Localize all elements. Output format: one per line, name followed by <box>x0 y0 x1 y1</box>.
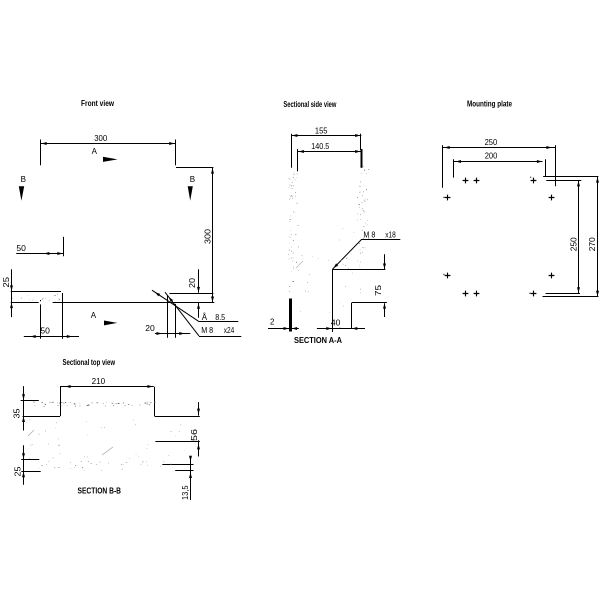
svg-text:25: 25 <box>13 466 22 477</box>
label diameter 8.5 <box>202 313 226 322</box>
extension line right x175 <box>175 140 177 166</box>
stray dot 2 <box>443 197 444 198</box>
dim 25 up arrow <box>10 303 13 308</box>
dimension 2 line <box>268 328 299 330</box>
dim 50 upper left arrow <box>44 252 49 255</box>
svg-text:SECTION B-B: SECTION B-B <box>78 486 122 496</box>
extension line x63 <box>63 237 65 256</box>
leader B underline <box>199 336 241 338</box>
dim text 250 <box>485 138 498 147</box>
dim text 155 <box>315 126 328 135</box>
hatch speckle front view flange <box>33 294 61 302</box>
svg-text:200: 200 <box>485 152 498 161</box>
dimension 140.5 line <box>298 151 362 153</box>
hole center cross 10 <box>531 291 537 297</box>
svg-text:50: 50 <box>40 326 50 335</box>
svg-text:B: B <box>190 175 195 184</box>
hole center cross 5 <box>549 195 555 201</box>
dim 50 lower left arrow <box>30 335 35 338</box>
dim 250 left arrow <box>444 146 449 149</box>
inner edge left <box>23 416 61 418</box>
dimension 300 horizontal line <box>40 143 175 145</box>
leader line hole B <box>165 292 199 336</box>
svg-text:Front view: Front view <box>81 99 115 108</box>
svg-text:140.5: 140.5 <box>311 142 329 151</box>
extension line left x40 <box>40 140 42 166</box>
dim text 300 vertical <box>203 228 212 244</box>
dim 200 right arrow <box>537 160 542 163</box>
inner edge right <box>155 416 200 418</box>
extension line x297 <box>297 149 299 171</box>
dim text 20 bottom <box>145 324 155 333</box>
svg-text:13,5: 13,5 <box>181 485 190 500</box>
boss left edge <box>332 270 334 332</box>
svg-text:B: B <box>21 175 26 184</box>
notch right edge tv <box>154 387 156 416</box>
section arrow A bottom <box>104 321 117 326</box>
dimension 35 vertical <box>23 386 25 430</box>
lower wall bottom edge <box>21 471 40 473</box>
dim 56 down arrow <box>197 409 200 414</box>
dim text 56 <box>190 428 199 441</box>
hatch speckle side view left wall <box>288 173 298 292</box>
dim text 13,5 <box>181 485 190 500</box>
stray dot 3 <box>443 274 444 275</box>
leader B arrowhead <box>169 297 174 302</box>
section arrow A top <box>103 157 118 162</box>
dim 155 left arrow <box>292 134 297 137</box>
svg-text:x24: x24 <box>224 326 235 335</box>
dim text 35 <box>13 408 22 419</box>
bottom edge right segment <box>53 302 215 304</box>
edge y470 <box>175 470 193 472</box>
svg-text:250: 250 <box>570 237 579 252</box>
svg-text:8.5: 8.5 <box>215 313 225 322</box>
dim 270v up arrow <box>596 177 599 182</box>
dim 56 lower shaft <box>198 440 200 456</box>
svg-text:M 8: M 8 <box>363 230 375 239</box>
section arrow B right <box>188 186 193 201</box>
label M8 x24 <box>201 326 235 335</box>
boss top edge <box>332 269 385 271</box>
dim text 210 <box>92 377 106 386</box>
dim text 300 top <box>94 134 108 143</box>
dim 56 upper shaft <box>198 402 200 416</box>
dim 25 down arrow <box>10 285 13 290</box>
hatch speckle side view lower middle <box>300 255 361 327</box>
dim 13.5 up arrow <box>189 473 192 478</box>
dim 13.5 down arrow <box>189 456 192 461</box>
hatch speckle top view lower row <box>42 461 172 468</box>
svg-text:2: 2 <box>270 318 275 327</box>
dimension 210 line <box>60 386 154 388</box>
dim 56 up arrow <box>197 444 200 449</box>
dim text 40 <box>331 319 341 328</box>
dim text 250 vertical <box>570 237 579 252</box>
svg-text:20: 20 <box>145 324 155 333</box>
dim 35 down arrow <box>22 394 25 399</box>
dim 20 vertical upper shaft <box>198 269 200 293</box>
label SECTION A-A <box>294 335 342 345</box>
hole center cross 6 <box>445 273 451 279</box>
dim 140.5 left arrow <box>299 150 304 153</box>
hole center cross 8 <box>463 291 469 297</box>
svg-text:210: 210 <box>92 377 106 386</box>
hatch speckle top view cavity <box>29 419 181 439</box>
svg-text:270: 270 <box>588 237 597 252</box>
extension 250v bottom <box>546 293 580 295</box>
dim 300 left arrow <box>41 142 46 145</box>
dim 210 right arrow <box>147 385 152 388</box>
leader M8x18 arrowhead <box>333 263 338 268</box>
notch left edge <box>60 387 62 416</box>
dim 140.5 right arrow <box>355 150 360 153</box>
dim 2 right-pointing arrow <box>284 327 289 330</box>
dim 250v up arrow <box>577 181 580 186</box>
hatch speckle front view flange left <box>12 295 30 299</box>
dimension 13.5 vertical <box>190 457 192 500</box>
dimension 250 vertical <box>578 180 580 293</box>
dim 50 lower right arrow <box>67 335 72 338</box>
dim 75 lower shaft <box>384 303 386 317</box>
hatch speckle top view lower scatter2 <box>39 468 123 471</box>
leader line hole A <box>152 290 198 321</box>
dim text 200 <box>485 152 498 161</box>
dim text 50 upper <box>16 244 26 253</box>
section label A bottom <box>91 311 97 320</box>
extension line x361 thin <box>360 134 362 150</box>
plate right edge segment <box>555 145 557 186</box>
svg-text:Mounting plate: Mounting plate <box>467 100 512 109</box>
dim 20v down arrow <box>197 287 200 292</box>
svg-text:300: 300 <box>203 228 212 244</box>
hole center cross 7 <box>549 273 555 279</box>
step top edge <box>352 302 387 304</box>
dim 75 down arrow <box>383 264 386 269</box>
leader A arrowhead <box>155 292 160 296</box>
dim text 270 vertical <box>588 237 597 252</box>
wall edge y441 <box>155 441 199 443</box>
dim 40 right arrow <box>352 327 357 330</box>
hole center cross 9 <box>474 291 480 297</box>
dimension 40 line <box>317 328 365 330</box>
svg-text:Å: Å <box>202 313 208 322</box>
dimension 250 line <box>443 147 555 149</box>
dim 50 upper right arrow <box>57 252 62 255</box>
label SECTION B-B <box>78 486 122 496</box>
outer wall top edge <box>21 400 39 402</box>
label M8 x18 <box>363 230 396 239</box>
flange top edge right <box>169 293 213 295</box>
dim 250 right arrow <box>546 146 551 149</box>
dim 75 up arrow <box>383 303 386 308</box>
dimension 155 line <box>291 135 361 137</box>
dim 300v down arrow <box>211 297 214 302</box>
dim 25tv up arrow <box>22 472 25 477</box>
section label B left <box>21 175 26 184</box>
view title: Sectional top view <box>63 358 116 367</box>
dim text 2 <box>270 318 275 327</box>
hole centerline 2 <box>175 304 177 338</box>
svg-text:155: 155 <box>315 126 328 135</box>
dim 200 left arrow <box>456 160 461 163</box>
svg-text:M 8: M 8 <box>201 326 213 335</box>
hole center cross 1 <box>463 178 469 184</box>
dim 40 left arrow <box>326 327 331 330</box>
section label A top <box>92 147 98 156</box>
stray dot 4 <box>529 293 530 294</box>
dim text 25 tv <box>13 466 22 477</box>
dimension 270 vertical <box>597 176 599 296</box>
svg-text:250: 250 <box>485 138 498 147</box>
view title: Front view <box>81 99 115 108</box>
dim text 140.5 <box>311 142 329 151</box>
bottom edge left segment <box>11 302 39 304</box>
dim text 50 lower <box>40 326 50 335</box>
dimension 25 vertical line <box>11 269 13 317</box>
hatch speckle top view upper wall row <box>33 402 155 407</box>
extension line x545 <box>545 159 547 176</box>
edge y464 <box>162 464 193 466</box>
leader M8x18 underline <box>361 239 400 241</box>
hole centerline 1 <box>167 295 169 338</box>
svg-text:SECTION A-A: SECTION A-A <box>294 335 342 345</box>
centerline dot <box>40 300 42 301</box>
dim 210 left arrow <box>65 385 70 388</box>
svg-text:50: 50 <box>16 244 26 253</box>
extension 250v top <box>546 180 581 182</box>
stray dot 1 <box>530 177 531 178</box>
dim 270v down arrow <box>596 291 599 296</box>
svg-text:x18: x18 <box>385 230 396 239</box>
view title: Mounting plate <box>467 100 512 109</box>
top step edge <box>176 167 213 169</box>
svg-text:A: A <box>92 147 98 156</box>
dimension 50 upper line <box>16 253 63 255</box>
svg-text:A: A <box>91 311 97 320</box>
leader M8x18 diagonal <box>333 239 362 269</box>
dim 20v up arrow <box>197 303 200 308</box>
faint diagonal mark 1 <box>28 430 34 436</box>
svg-text:35: 35 <box>13 408 22 419</box>
hatch speckle side view boss area <box>339 229 363 269</box>
flange top edge left <box>11 291 61 293</box>
leader A underline <box>198 321 238 323</box>
svg-text:Sectional side view: Sectional side view <box>283 100 337 109</box>
svg-text:40: 40 <box>331 319 341 328</box>
dim 300 right arrow <box>169 142 174 145</box>
plate top edge + ext <box>543 176 598 178</box>
dimension 25 tv vertical <box>23 445 25 484</box>
svg-text:75: 75 <box>374 284 383 296</box>
extension line x291 <box>291 134 293 168</box>
view title: Sectional side view <box>283 100 337 109</box>
dim 20b arrow 1 <box>157 332 162 335</box>
centerline segment <box>40 304 42 338</box>
dim text 75 <box>374 284 383 296</box>
notch right edge <box>62 293 64 339</box>
dim 20v lower shaft <box>198 303 200 318</box>
section arrow B left <box>19 186 24 201</box>
svg-text:Sectional top view: Sectional top view <box>63 358 116 367</box>
dim 25tv down arrow <box>22 453 25 458</box>
section label B right <box>190 175 195 184</box>
dim 300v up arrow <box>211 168 214 173</box>
dimension 200 line <box>454 161 543 163</box>
extension line x442 <box>442 145 444 188</box>
rear wall thick edge <box>361 149 363 168</box>
svg-text:300: 300 <box>94 134 108 143</box>
dim 75 upper shaft <box>384 254 386 269</box>
dim 35 up arrow <box>22 417 25 422</box>
hole center cross 2 <box>474 178 480 184</box>
plate bottom edge + ext <box>543 296 599 298</box>
svg-text:56: 56 <box>190 428 199 441</box>
lower wall top edge <box>21 459 39 461</box>
dim 2 left-pointing arrow <box>292 327 297 330</box>
dim 250v down arrow <box>577 287 580 292</box>
dim text 25 <box>2 276 11 287</box>
dimension 20 bottom line <box>155 333 190 335</box>
svg-text:20: 20 <box>188 277 197 288</box>
step vertical edge <box>351 303 353 329</box>
svg-text:25: 25 <box>2 276 11 287</box>
front wall cut thick bar <box>289 299 292 332</box>
hole center cross 4 <box>445 195 451 201</box>
dim 20b arrow 2 <box>179 332 184 335</box>
hatch speckle side view right wall <box>357 166 369 249</box>
hole center cross 3 <box>531 178 537 184</box>
faint diagonal mark 3 <box>296 261 303 268</box>
dim 155 right arrow <box>355 134 360 137</box>
dimension 50 lower line <box>24 336 79 338</box>
dimension 300 vertical line <box>212 167 214 302</box>
faint diagonal mark 2 <box>102 447 113 455</box>
dim text 20 vertical <box>188 277 197 288</box>
extension line x453 <box>453 159 455 177</box>
hatch speckle top view lower scatter <box>29 444 185 460</box>
